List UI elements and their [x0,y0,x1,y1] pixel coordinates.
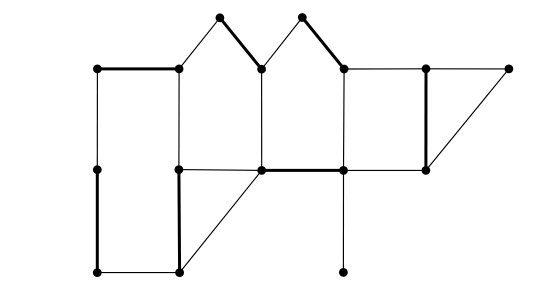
wire edge I-N (thick vertical) [96,170,99,273]
wire edge C-D (thick diagonal) [220,18,262,69]
wire edge B-C (thin diagonal) [179,18,220,69]
node M [422,166,431,175]
node E [298,13,307,22]
wire edge F-G (thin horizontal) [344,68,426,70]
wire edge L-M (thin horizontal) [344,169,426,171]
wire edge K-L (thick horizontal) [262,169,344,172]
node D [257,65,266,74]
wire edge E-F (thick diagonal) [302,18,344,70]
wire edge G-M (thick vertical) [424,69,427,171]
wire edge D-K (thin vertical) [261,69,263,170]
wire edge N-O (thin horizontal) [97,272,179,274]
node O [175,268,184,277]
node K [257,166,266,175]
node I [93,165,102,174]
node J [175,165,184,174]
node P [339,268,348,277]
node A [93,65,102,74]
node B [175,65,184,74]
wire edge A-B (thick horizontal) [97,67,179,70]
wire edge J-K (thin horizontal) [179,169,262,172]
node N [93,268,102,277]
node H [505,65,514,74]
wire edge H-M (thin diagonal) [426,69,509,170]
wire edge K-O (thin diagonal) [180,170,262,272]
node F [340,65,349,74]
wire edge D-E (thin diagonal) [262,18,303,70]
node L [339,166,348,175]
wire edge A-I (thin vertical) [96,69,98,170]
wire edge F-L (thin vertical) [343,69,346,170]
wire edge J-O (thick vertical) [177,170,181,273]
node G [422,64,431,73]
wire edge L-P (thin vertical) [342,170,344,272]
wire edge G-H (thin horizontal) [426,68,509,70]
node C [216,13,225,22]
wire edge B-J (thin vertical) [178,69,180,170]
